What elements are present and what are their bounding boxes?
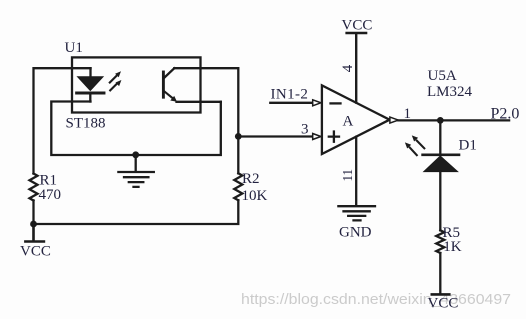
U1 LED emission arrow 1: [110, 71, 121, 82]
svg-text:10K: 10K: [242, 188, 268, 204]
LM324 label: [427, 84, 473, 100]
svg-text:D1: D1: [459, 138, 477, 154]
svg-text:P2.0: P2.0: [491, 105, 520, 122]
VCC label (bottom left): [20, 244, 51, 260]
power VCC (bottom right): [432, 293, 450, 296]
node: VCC bus junction dot: [30, 221, 37, 228]
VCC label (bottom right): [428, 296, 459, 312]
svg-text:A: A: [343, 113, 354, 129]
D1 emission arrow 2: [412, 135, 425, 148]
wire: LED cathode stub: [89, 94, 91, 101]
wire: junction to op-amp non-inverting input: [238, 135, 312, 137]
wire: junction down to D1 cathode: [439, 120, 441, 154]
svg-text:1K: 1K: [443, 239, 462, 255]
resistor R1: [30, 174, 38, 201]
svg-text:https://blog.csdn.net/weixin_4: https://blog.csdn.net/weixin_43660497: [241, 291, 511, 308]
optocoupler U1 box: [72, 57, 201, 112]
wire: R5 to VCC (bottom right): [439, 253, 441, 294]
ST188 label: [66, 116, 106, 132]
R2 value 10K: [242, 188, 268, 204]
svg-text:11: 11: [341, 169, 356, 182]
R2 label: [242, 171, 260, 187]
power VCC (op-amp, top): [347, 33, 367, 103]
wire: junction down to R2: [237, 136, 239, 173]
resistor R2: [234, 173, 242, 200]
node P2.0 label: [491, 105, 520, 122]
pin 2 arrowhead: [313, 100, 321, 106]
svg-text:ST188: ST188: [66, 116, 106, 132]
output arrowhead pin 1: [390, 117, 398, 123]
node: R2 top junction dot: [235, 133, 242, 140]
op-amp plus sign: [329, 132, 339, 142]
VCC label (top): [342, 18, 373, 34]
svg-text:4: 4: [340, 64, 356, 72]
svg-text:U5A: U5A: [428, 68, 457, 84]
power VCC (bottom left): [25, 224, 44, 242]
U1 phototransistor collector stroke: [165, 68, 175, 77]
pin 4 number: [340, 64, 356, 72]
D1 emission arrow 1: [405, 142, 417, 155]
wire: LED anode stub: [89, 68, 91, 77]
U1 emitter LED D (filled triangle): [78, 77, 103, 91]
U1 phototransistor base bar: [162, 72, 165, 97]
svg-text:IN1-2: IN1-2: [271, 87, 309, 103]
wire: D1 anode down to R5: [439, 172, 441, 231]
ground (left) symbol: [118, 155, 153, 187]
svg-text:VCC: VCC: [20, 244, 51, 260]
wire: IN1-2 input to inverting input: [270, 102, 312, 104]
U1 phototransistor emitter stroke with arrow: [165, 92, 178, 102]
node: D1 junction dot: [437, 117, 444, 124]
node IN1-2 label: [271, 87, 309, 103]
ST188 package frame (lower box, open at middle top): [51, 102, 221, 156]
svg-text:VCC: VCC: [342, 18, 373, 34]
wire: collector to right vertical: [174, 68, 238, 136]
D1 label: [459, 138, 477, 154]
U1 label: [65, 40, 83, 56]
R5 value 1K: [443, 239, 462, 255]
R5 label: [443, 225, 461, 241]
ground (left) junction dot: [132, 151, 139, 158]
wire: op-amp pin 11 to ground: [355, 137, 357, 206]
pin 3 arrowhead: [313, 134, 321, 140]
U1 LED cathode bar: [77, 92, 104, 95]
wire: VCC-left up to LED anode (left vertical + top horizontal): [34, 68, 91, 224]
R1 label: [40, 173, 58, 189]
wire: R2 bottom to bus corner: [34, 200, 239, 224]
U5A label: [428, 68, 457, 84]
LED D1 triangle: [424, 156, 458, 172]
ground GND (op-amp): [338, 206, 375, 220]
svg-text:LM324: LM324: [427, 84, 473, 100]
op-amp A label: [343, 113, 354, 129]
svg-text:1: 1: [404, 106, 412, 122]
op-amp minus sign: [331, 102, 341, 104]
wire: emitter to package frame: [177, 101, 221, 103]
resistor R5: [436, 230, 444, 253]
pin 1 label: [404, 106, 412, 122]
svg-text:U1: U1: [65, 40, 83, 56]
U1 LED emission arrow 2: [110, 80, 121, 90]
svg-text:VCC: VCC: [428, 296, 459, 312]
R1 value 470: [39, 187, 62, 203]
wire: op-amp output to P2.0: [398, 119, 509, 121]
op-amp U5A triangle: [322, 85, 390, 154]
pin 11 number: [341, 169, 356, 182]
LED D1 cathode bar: [423, 154, 459, 157]
pin 3 label: [301, 122, 309, 138]
svg-text:3: 3: [301, 122, 309, 138]
svg-text:470: 470: [39, 187, 62, 203]
svg-text:GND: GND: [339, 225, 372, 241]
svg-text:R2: R2: [242, 171, 260, 187]
watermark: [241, 291, 511, 308]
GND label: [339, 225, 372, 241]
